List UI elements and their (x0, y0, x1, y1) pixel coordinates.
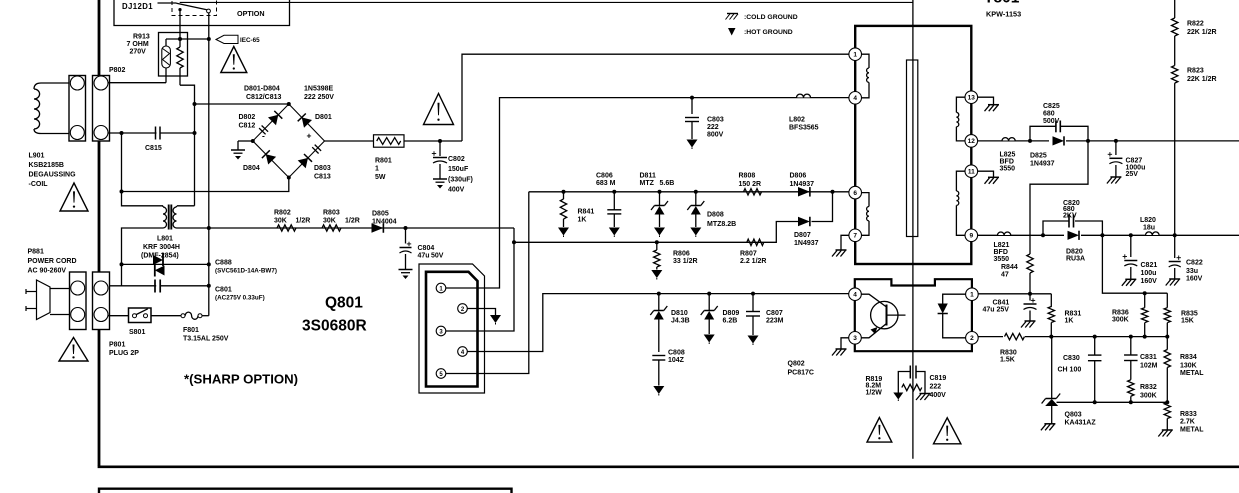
ground (earth) at bridge minus (231, 149, 245, 151)
capacitor C841 47u 25V (983, 294, 1037, 321)
svg-text:D806: D806 (790, 173, 807, 180)
svg-text:POWER CORD: POWER CORD (28, 258, 77, 265)
svg-text:300K: 300K (1140, 393, 1157, 400)
junction dot (207, 262, 211, 266)
capacitor C808 104Z (652, 350, 685, 386)
option sub-circuit box (114, 0, 290, 26)
resistor R802 30K 1/2R (274, 210, 310, 232)
capacitor C807 223M (746, 294, 784, 335)
cold ground at Q802 pin3 (836, 348, 847, 350)
junction dot (1114, 139, 1118, 143)
svg-text:C802: C802 (448, 156, 465, 163)
wire Q801 pin2 to hot ground (467, 309, 495, 316)
svg-text:*(SHARP OPTION): *(SHARP OPTION) (184, 372, 298, 387)
svg-text:50V: 50V (431, 253, 444, 260)
svg-text:C803: C803 (707, 117, 724, 124)
cold ground below C827 (1110, 176, 1121, 178)
capacitor C825 680 500V (snubber loop) (1030, 103, 1088, 141)
hot ground below R841 (558, 228, 569, 236)
junction dot (193, 131, 197, 135)
svg-text:500V: 500V (1043, 118, 1060, 125)
svg-text:L802: L802 (789, 117, 805, 124)
junction dot (1086, 139, 1090, 143)
svg-text:RU3A: RU3A (1066, 256, 1085, 263)
svg-text:1N4937: 1N4937 (790, 181, 815, 188)
svg-text::COLD GROUND: :COLD GROUND (744, 14, 798, 21)
capacitor C821 100u 160V (1123, 235, 1158, 285)
svg-text:150 2R: 150 2R (739, 181, 762, 188)
junction dot (207, 37, 211, 41)
bridge rectifier D801-D804 diamond (253, 104, 325, 178)
svg-text:6.2B: 6.2B (723, 318, 738, 325)
svg-text:15K: 15K (1181, 318, 1194, 325)
junction dot (207, 226, 211, 230)
svg-text:P881: P881 (28, 249, 44, 256)
svg-text:C808: C808 (668, 350, 685, 357)
junction dot (193, 102, 197, 106)
cold ground at pin13 (988, 104, 999, 106)
wire Q802 pin3 to ground (841, 338, 849, 349)
resistor R834 130K METAL (1164, 337, 1204, 403)
capacitor C831 102M (1124, 337, 1158, 380)
svg-text:1K: 1K (578, 217, 587, 224)
svg-text:D811: D811 (640, 173, 656, 180)
svg-text:C815: C815 (145, 145, 162, 152)
junction dot (1129, 335, 1133, 339)
junction dot (612, 190, 616, 194)
T801 pin 1 (849, 48, 862, 61)
wire P802 bottom / C815 line (108, 132, 195, 134)
wire R913 top node y=39 (166, 38, 209, 40)
svg-text:R844: R844 (1001, 264, 1018, 271)
junction dot (751, 292, 755, 296)
svg-text:OPTION: OPTION (237, 9, 265, 18)
T801 pin 9 (965, 229, 978, 242)
svg-text:C827: C827 (1126, 158, 1143, 165)
svg-text:25V: 25V (1126, 171, 1139, 178)
junction dot (438, 139, 442, 143)
svg-text:R808: R808 (739, 173, 756, 180)
degaussing coil L901 (34, 83, 69, 134)
hot ground below C803 (687, 140, 698, 148)
svg-text:BFS3565: BFS3565 (789, 125, 819, 132)
capacitor C803 222 800V (685, 98, 724, 139)
cold ground at T801 pin7 (836, 249, 847, 251)
svg-text:(330uF): (330uF) (448, 177, 473, 184)
T801 winding 6-7 (aux) (862, 193, 870, 236)
svg-text:T3.15AL 250V: T3.15AL 250V (183, 336, 229, 343)
svg-text:2.2 1/2R: 2.2 1/2R (740, 258, 766, 265)
wire S801 to F801 (151, 315, 181, 317)
T801 pin 11 (965, 165, 978, 178)
wire R823 down to C822 node (1174, 83, 1176, 235)
svg-text:D805: D805 (372, 211, 389, 218)
svg-text:-: - (262, 131, 265, 141)
capacitor C806 683 M (596, 173, 621, 228)
junction dot (178, 37, 182, 41)
svg-text:1: 1 (970, 292, 974, 299)
junction dot (694, 190, 698, 194)
wire lower feedback rail y=402.3 (1057, 401, 1168, 403)
svg-text:R834: R834 (1180, 354, 1197, 361)
capacitor C801 (AC275V 0.33uF) (155, 279, 265, 302)
svg-text:102M: 102M (1140, 362, 1158, 369)
svg-text:1: 1 (375, 166, 379, 173)
svg-text:C801: C801 (215, 287, 232, 294)
ground (earth) below C804 (399, 269, 413, 271)
svg-text:1N5398E: 1N5398E (304, 86, 334, 93)
svg-text:6: 6 (853, 190, 857, 197)
junction dot (1143, 335, 1147, 339)
svg-text:C819: C819 (930, 375, 947, 382)
svg-text:METAL: METAL (1180, 370, 1204, 377)
hot ground below C807 (748, 336, 759, 344)
wire pin9 line y=235.3 (978, 234, 1239, 236)
hot ground below D809 (704, 335, 715, 343)
zener diode D809 6.2B (701, 294, 740, 334)
svg-text:300K: 300K (1112, 316, 1129, 323)
svg-text:7 OHM: 7 OHM (127, 41, 149, 48)
svg-text:400V: 400V (930, 392, 947, 399)
svg-text:L821: L821 (994, 242, 1010, 249)
junction dot (657, 292, 661, 296)
hot ground below R806 (651, 270, 662, 278)
junction dot (287, 102, 291, 106)
warning triangle (top) (221, 47, 247, 73)
hot/cold ground divider line (912, 0, 914, 459)
svg-text:R822: R822 (1187, 21, 1204, 28)
svg-text:C825: C825 (1043, 103, 1060, 110)
junction dot (1041, 233, 1045, 237)
wire to L801 right coil top (177, 205, 195, 207)
wire main line y=228 L801 to Q801 area (177, 227, 515, 229)
svg-text:5.6B: 5.6B (660, 180, 675, 187)
line filter L801 (common-mode choke) (163, 205, 177, 230)
relay S (dashed box with switch contact) (158, 0, 217, 16)
diode D802 (bridge top-left) with C812 (259, 128, 266, 134)
connector P801 PLUG 2P (board half) (93, 272, 110, 330)
svg-text:13: 13 (968, 95, 976, 102)
svg-text:1N4937: 1N4937 (1030, 160, 1055, 167)
svg-text:160V: 160V (1186, 276, 1203, 283)
svg-text:Q801: Q801 (325, 295, 363, 312)
svg-text:22K 1/2R: 22K 1/2R (1187, 29, 1217, 36)
wire C801 row y=285.8 (108, 285, 209, 287)
T801 pin 6 (849, 186, 862, 199)
hot ground at R819 left (893, 388, 903, 402)
diode D804 (bridge bottom-left) (266, 154, 276, 164)
T801 winding 13-12 (secondary) (956, 97, 965, 141)
IEC-65 flag (216, 35, 260, 44)
diode D803 (bridge bottom-right) with C813 (298, 158, 308, 168)
svg-text:680: 680 (1043, 111, 1055, 118)
svg-text:D801: D801 (315, 114, 332, 121)
svg-text:D803: D803 (314, 165, 331, 172)
svg-text:BFD: BFD (994, 249, 1008, 256)
svg-text:BFD: BFD (1000, 159, 1014, 166)
inductor L820 18u (1140, 217, 1159, 235)
wire P801 bottom to S801 (108, 315, 129, 317)
resistor R808 150 2R (739, 173, 762, 196)
svg-text:J4.3B: J4.3B (671, 318, 690, 325)
diode D801 (bridge top-right) (302, 117, 312, 127)
svg-text:DEGAUSSING: DEGAUSSING (29, 172, 77, 179)
svg-text:KRF 3004H: KRF 3004H (143, 244, 180, 251)
svg-text:223M: 223M (766, 318, 784, 325)
svg-text:800V: 800V (707, 132, 724, 139)
capacitor C802 150uF (330uF) 400V (432, 141, 473, 194)
connector P802 (plug half) (69, 76, 86, 142)
resistor R830 1.5K (1000, 333, 1025, 364)
svg-text:7: 7 (853, 233, 857, 240)
inductor L825 BFD 3550 (1000, 137, 1016, 173)
second sheet box (top-left corner, partial) (99, 489, 512, 493)
svg-text:D807: D807 (794, 232, 811, 239)
svg-text:30K: 30K (323, 218, 336, 225)
svg-text:C831: C831 (1140, 354, 1157, 361)
Q802 phototransistor (862, 294, 906, 338)
svg-text:L825: L825 (1000, 152, 1016, 159)
svg-text:D810: D810 (671, 310, 688, 317)
svg-text:47u: 47u (418, 253, 430, 260)
Q802 pin 3 (849, 332, 862, 345)
wire Vcc top rail y=191.8 (529, 191, 849, 193)
svg-text:C841: C841 (993, 299, 1010, 306)
resistor R807 2.2 1/2R (740, 239, 766, 265)
transformer T801 box (855, 26, 971, 264)
svg-text:+: + (307, 131, 312, 141)
svg-text:5W: 5W (375, 174, 386, 181)
wire bridge minus to ground (238, 140, 253, 142)
svg-text:150uF: 150uF (448, 166, 469, 173)
svg-text:R807: R807 (740, 251, 757, 258)
main schematic border (bottom edge) (98, 465, 1239, 468)
resistor R832 300K (1128, 380, 1157, 403)
svg-text:270V: 270V (130, 49, 147, 56)
junction dot (207, 284, 211, 288)
cold ground below C821 (1125, 278, 1136, 280)
svg-text:C813: C813 (314, 174, 331, 181)
junction dot (1143, 291, 1147, 295)
T801 pin 4 (849, 92, 862, 105)
svg-text:C812/C813: C812/C813 (246, 94, 282, 101)
junction dot (707, 292, 711, 296)
resistor R836 300K (1112, 293, 1148, 336)
Q801 pin 2 (458, 304, 468, 314)
svg-text:C888: C888 (215, 260, 232, 267)
Q801 pin 3 (436, 326, 446, 336)
svg-text:R913: R913 (133, 34, 150, 41)
T801 winding 1-4 (primary) (862, 54, 870, 98)
svg-text:R835: R835 (1181, 311, 1198, 318)
main schematic border (left edge) (98, 0, 101, 466)
svg-text:1: 1 (853, 52, 857, 59)
connector P802 (board half) (93, 76, 110, 142)
resistor R801 1 5W (box style) (374, 135, 405, 181)
svg-text:R823: R823 (1187, 68, 1204, 75)
svg-text:1.5K: 1.5K (1000, 356, 1015, 363)
svg-text:CH 100: CH 100 (1058, 366, 1082, 373)
svg-text:C821: C821 (1141, 262, 1158, 269)
svg-text:30K: 30K (274, 218, 287, 225)
wire Q802 pin2 feedback line y=336.6 (978, 336, 1167, 338)
wire relay pin to R913 node (179, 10, 181, 39)
optocoupler Q802 box (855, 279, 972, 351)
svg-text:D809: D809 (723, 310, 740, 317)
svg-text:3550: 3550 (994, 256, 1010, 263)
diode D805 1N4004 (372, 211, 397, 233)
wire B+ rail to transformer pin 1 (462, 54, 849, 141)
junction dot (1028, 139, 1032, 143)
capacitor C827 1000u 25V (1108, 141, 1146, 178)
svg-text:D820: D820 (1066, 248, 1083, 255)
resistor R822 22K 1/2R (1172, 0, 1217, 36)
svg-text:T801: T801 (984, 0, 1020, 7)
fuse F801 T3.15AL 250V (181, 312, 229, 342)
svg-text:222: 222 (707, 124, 719, 131)
resistor R819 8.2M 1/2W (866, 376, 922, 396)
svg-text:C830: C830 (1063, 355, 1080, 362)
diode D806 1N4937 (790, 173, 815, 197)
svg-text:Q803: Q803 (1065, 412, 1082, 419)
wire Q801 pin1 to transformer pin4 (drain line) (446, 98, 849, 288)
hot ground below C808 (653, 386, 664, 394)
junction dot (1028, 292, 1032, 296)
Q802 pin 1 (966, 288, 979, 301)
svg-text:PC817C: PC817C (788, 370, 814, 377)
svg-text:18u: 18u (1143, 225, 1155, 232)
shunt regulator Q803 KA431AZ (1042, 337, 1097, 427)
svg-text:R830: R830 (1000, 349, 1017, 356)
svg-text:MTZ8.2B: MTZ8.2B (707, 221, 736, 228)
svg-text:R831: R831 (1065, 311, 1082, 318)
svg-text:KA431AZ: KA431AZ (1065, 419, 1097, 426)
junction dot (1129, 400, 1133, 404)
junction dot (1165, 335, 1169, 339)
cold ground below R833 (1162, 429, 1173, 431)
inductor L821 BFD 3550 (994, 231, 1011, 263)
capacitor C822 33u 160V (1169, 235, 1203, 282)
svg-text:47: 47 (1001, 271, 1009, 278)
svg-text:4: 4 (853, 95, 857, 102)
cold ground at pin11 (988, 176, 999, 178)
Q802 pin 4 (849, 288, 862, 301)
wire D820 node to divider network (1102, 235, 1167, 293)
hot ground at Q801 pin2 (490, 315, 501, 323)
svg-text:KPW-1153: KPW-1153 (986, 10, 1021, 19)
svg-text:222: 222 (930, 384, 942, 391)
svg-text:-COIL: -COIL (29, 181, 49, 188)
svg-text:(SVC561D-14A-BW7): (SVC561D-14A-BW7) (215, 268, 277, 275)
power plug P881 symbol (26, 280, 69, 320)
svg-text::HOT GROUND: :HOT GROUND (744, 29, 793, 36)
svg-text:4: 4 (853, 292, 857, 299)
junction dot (831, 190, 835, 194)
junction dot (251, 139, 255, 143)
wire relay circle pin down long rail x=209 (208, 13, 210, 316)
capacitor C815 (145, 126, 162, 152)
svg-text:(AC275V 0.33uF): (AC275V 0.33uF) (215, 295, 265, 302)
wire bridge top feed y=104 (195, 103, 289, 105)
warning triangle (bottom-left) (59, 338, 88, 362)
svg-text:C806: C806 (596, 173, 613, 180)
wire R801 to riser (404, 140, 462, 142)
Q801 pin 1 (436, 283, 446, 293)
warning triangle (left) (60, 183, 88, 211)
resistor R833 2.7K METAL (1164, 403, 1204, 434)
svg-text:D801-D804: D801-D804 (244, 86, 280, 93)
svg-text:2: 2 (970, 335, 974, 342)
T801 pin 12 (965, 135, 978, 148)
inductor L802 BFS3565 (789, 93, 819, 132)
junction dot (562, 190, 566, 194)
svg-text:1/2W: 1/2W (866, 389, 883, 396)
svg-text:22K 1/2R: 22K 1/2R (1187, 76, 1217, 83)
svg-text:R836: R836 (1112, 309, 1129, 316)
svg-text:PLUG 2P: PLUG 2P (109, 350, 139, 357)
svg-text:KSB2185B: KSB2185B (29, 162, 64, 169)
svg-text:MTZ: MTZ (640, 180, 655, 187)
cold ground below Q803 (1044, 423, 1055, 425)
svg-text:400V: 400V (448, 187, 465, 194)
wire relay drive line along top to secondary (180, 1, 913, 3)
wire AC-line node riser x=194.5 (194, 104, 196, 206)
svg-text:DJ12D1: DJ12D1 (122, 2, 153, 11)
junction dot (655, 240, 659, 244)
svg-text:12: 12 (968, 138, 976, 145)
wire pin13 to ground (978, 97, 994, 104)
warning triangle (near R801) (424, 94, 454, 125)
wire D825 node to R844 (1030, 141, 1088, 254)
junction dot (690, 96, 694, 100)
legend cold ground symbol (726, 14, 798, 22)
diode D825 1N4937 (1030, 136, 1066, 167)
wire Q801 pin3 riser (446, 228, 514, 331)
svg-text:R803: R803 (323, 210, 340, 217)
svg-text:AC 90-260V: AC 90-260V (28, 268, 67, 275)
svg-text:1N4937: 1N4937 (794, 240, 819, 247)
svg-text:D808: D808 (707, 212, 724, 219)
transformer core (907, 60, 918, 237)
zener diode D810 J4.3B (650, 294, 689, 352)
svg-text:1/2R: 1/2R (345, 218, 360, 225)
hot ground below C806 (609, 228, 620, 236)
svg-text:L801: L801 (157, 236, 173, 243)
svg-text:33u: 33u (1186, 268, 1198, 275)
zener diode D808 MTZ8.2B (687, 192, 736, 228)
svg-text:47u 25V: 47u 25V (983, 307, 1010, 314)
connector P801 (cord half) (70, 272, 87, 330)
resistor R803 30K 1/2R (322, 210, 360, 232)
svg-text:D804: D804 (243, 165, 260, 172)
cold ground below C841 (1025, 320, 1036, 322)
wire bridge plus output y=141 (325, 140, 374, 142)
svg-text:1N4004: 1N4004 (372, 219, 397, 226)
R913 enclosure box (159, 33, 188, 77)
junction dot (120, 190, 124, 194)
svg-text:F801: F801 (183, 327, 199, 334)
wire R913 bottom to bridge-top riser (180, 85, 195, 104)
junction dot (1129, 233, 1133, 237)
wire pin12 output line y=140.9 (978, 140, 1239, 142)
capacitor C804 47u 50V (400, 228, 444, 270)
Q801 pin 5 (436, 369, 446, 379)
svg-text:R841: R841 (578, 209, 595, 216)
svg-text:100u: 100u (1141, 270, 1157, 277)
junction dot (1093, 400, 1097, 404)
svg-text:1K: 1K (1065, 318, 1074, 325)
svg-text:C807: C807 (766, 310, 783, 317)
